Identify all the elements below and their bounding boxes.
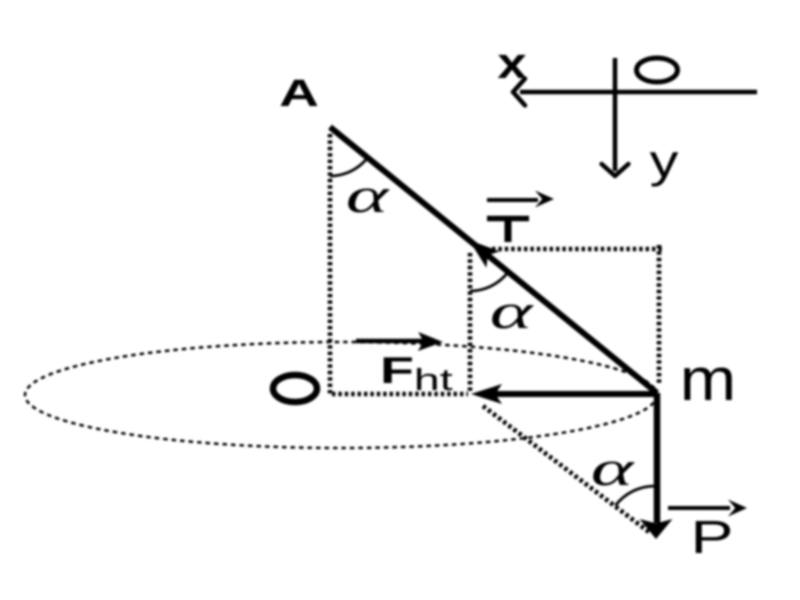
label m [680, 346, 736, 413]
dotted horizontal O to F_ht tip [332, 392, 468, 397]
coordinate axes top-right [497, 39, 757, 188]
svg-text:Fht: Fht [380, 349, 453, 397]
label alpha at T [490, 283, 535, 339]
label x [497, 39, 526, 88]
svg-text:A: A [279, 72, 319, 115]
string A to m (thick) [330, 127, 657, 393]
angle arc alpha at A [330, 158, 367, 176]
svg-text:α: α [346, 167, 391, 223]
dotted vertical right, T level down to m [657, 245, 662, 384]
x-axis line [520, 90, 757, 95]
angle arc alpha at T [470, 273, 507, 291]
label T [487, 216, 529, 242]
dotted diagonal (T direction through P tip) [483, 406, 649, 532]
dotted vertical T point down to F_ht tip [468, 253, 473, 392]
angle arc alpha at P [615, 486, 655, 506]
label A [279, 72, 319, 115]
svg-text:α: α [490, 283, 535, 339]
tension vector T arrowhead on string [469, 240, 500, 268]
label y [650, 136, 679, 187]
F_ht force vector (m to left) [471, 384, 657, 404]
y-axis arrowhead [602, 164, 629, 176]
circular path ellipse (dashed) [25, 342, 657, 448]
weight vector P (m down) [640, 393, 673, 539]
label P [691, 511, 734, 563]
label O (circle centre) [273, 375, 317, 402]
svg-text:m: m [680, 346, 736, 413]
label F_ht [380, 349, 453, 397]
svg-text:y: y [650, 136, 679, 187]
svg-text:P: P [691, 511, 734, 563]
motion direction arrow on ellipse [356, 332, 443, 351]
label O (axes origin) [637, 58, 678, 82]
y-axis line [613, 58, 618, 171]
x-axis arrowhead [513, 79, 525, 106]
svg-text:α: α [591, 440, 636, 496]
dotted vertical A to O [328, 134, 333, 394]
over-arrow of P [668, 500, 747, 517]
svg-text:x: x [497, 39, 526, 88]
label alpha at A [346, 167, 391, 223]
dotted horizontal T level [492, 247, 662, 252]
label alpha at P [591, 440, 636, 496]
over-arrow of T [487, 191, 554, 208]
